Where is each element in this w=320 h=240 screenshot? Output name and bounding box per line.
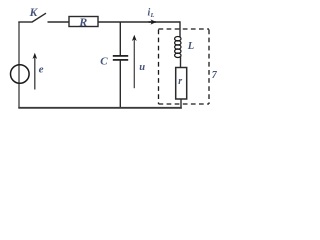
resistor R box	[69, 17, 98, 27]
voltage arrow u	[133, 38, 135, 89]
node junction at capacitor branch	[119, 22, 121, 56]
wire : switch to resistor R	[48, 21, 70, 23]
inductor L coil	[175, 36, 181, 57]
svg-text:R: R	[78, 15, 87, 29]
current arrow iL head	[149, 21, 157, 23]
wire : coil to resistor r	[180, 56, 182, 68]
svg-text:r: r	[178, 76, 182, 87]
svg-text:L: L	[150, 12, 155, 19]
bottom rail wire	[18, 107, 182, 109]
wire : capacitor bottom to bottom rail	[119, 60, 121, 108]
svg-text:u: u	[139, 62, 145, 73]
wire : resistor to right corner	[98, 21, 180, 23]
source circle e	[10, 65, 29, 84]
capacitor C plates	[113, 55, 128, 57]
emf arrow e	[34, 56, 36, 90]
svg-text:e: e	[39, 64, 44, 76]
switch K blade	[32, 13, 47, 22]
wire : left vertical	[18, 22, 20, 108]
svg-text:C: C	[100, 55, 108, 67]
svg-text:K: K	[29, 7, 39, 19]
svg-text:7: 7	[212, 70, 217, 81]
dashed enclosure box	[159, 29, 210, 104]
svg-text:L: L	[187, 41, 194, 52]
wire : right branch vertical top	[179, 21, 181, 37]
wire : resistor r to bottom rail	[180, 99, 182, 109]
wire : top left stub to switch hinge	[18, 21, 31, 23]
resistor r box	[176, 68, 187, 100]
